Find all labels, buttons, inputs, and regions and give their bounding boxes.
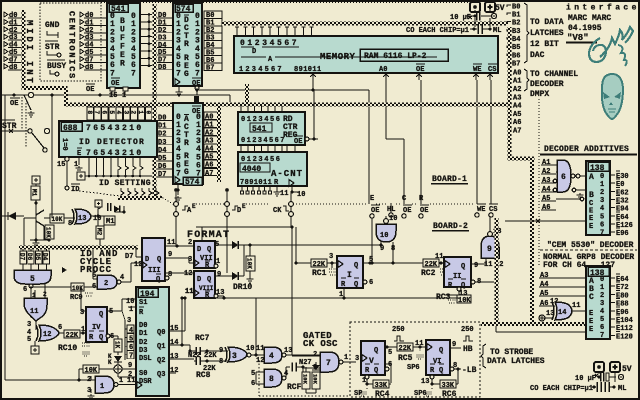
svg-text:R: R bbox=[184, 139, 189, 148]
wire FF III to FF VII clock bbox=[164, 257, 189, 259]
terminal +5V top right bbox=[470, 2, 480, 12]
svg-text:5: 5 bbox=[251, 370, 255, 378]
svg-text:7891011: 7891011 bbox=[240, 179, 272, 187]
svg-text:76543210: 76543210 bbox=[86, 124, 144, 133]
svg-text:FORMAT: FORMAT bbox=[187, 230, 230, 241]
svg-text:9: 9 bbox=[487, 245, 492, 254]
box CENTRONICS dotted outline bbox=[40, 3, 101, 81]
svg-text:I: I bbox=[347, 271, 352, 280]
chip U3 MEMORY RAM 6116 LP-2 bbox=[234, 36, 498, 73]
gate 12 XOR bbox=[39, 325, 59, 341]
svg-text:8: 8 bbox=[219, 358, 223, 366]
svg-text:7: 7 bbox=[195, 69, 200, 78]
svg-text:S0: S0 bbox=[139, 370, 147, 378]
svg-text:II: II bbox=[453, 273, 461, 281]
svg-text:3: 3 bbox=[355, 355, 359, 363]
gate 3 XOR bbox=[228, 347, 247, 362]
svg-text:1: 1 bbox=[137, 111, 144, 115]
svg-text:138: 138 bbox=[590, 164, 605, 173]
svg-text:6: 6 bbox=[23, 286, 27, 294]
svg-text:4040: 4040 bbox=[242, 165, 261, 174]
svg-text:11: 11 bbox=[30, 308, 38, 316]
svg-text:76543210: 76543210 bbox=[86, 149, 144, 158]
labels B0-B7 to data latches bbox=[507, 5, 511, 7]
svg-text:SP6: SP6 bbox=[407, 364, 420, 372]
svg-text:10: 10 bbox=[380, 232, 388, 240]
svg-text:10K: 10K bbox=[85, 367, 98, 375]
resistors RCF 10K 10K bbox=[302, 372, 310, 389]
svg-text:9: 9 bbox=[474, 262, 478, 270]
svg-text:10 µF: 10 µF bbox=[450, 14, 471, 22]
svg-text:A5: A5 bbox=[542, 195, 550, 203]
svg-text:11: 11 bbox=[127, 377, 135, 385]
chip U7 4040 A-CNT bbox=[238, 152, 307, 186]
svg-text:RC4: RC4 bbox=[375, 390, 390, 399]
wires caps to gate 3 bbox=[190, 350, 196, 352]
svg-text:RCF: RCF bbox=[287, 383, 302, 392]
svg-text:MIDI INT: MIDI INT bbox=[24, 20, 34, 86]
svg-text:Q: Q bbox=[354, 281, 358, 289]
svg-text:RC5: RC5 bbox=[398, 354, 413, 363]
svg-text:04.1995: 04.1995 bbox=[568, 24, 602, 33]
wire CS vertical bbox=[490, 80, 492, 204]
svg-text:5: 5 bbox=[600, 213, 604, 221]
svg-text:G: G bbox=[184, 70, 189, 79]
svg-text:11: 11 bbox=[572, 302, 580, 310]
svg-text:A7: A7 bbox=[513, 128, 521, 136]
svg-text:8: 8 bbox=[477, 278, 481, 286]
svg-text:A4: A4 bbox=[542, 186, 550, 194]
svg-text:D: D bbox=[197, 276, 201, 284]
flip-flop VIII bbox=[194, 271, 215, 298]
svg-text:6: 6 bbox=[388, 361, 392, 369]
svg-text:OE: OE bbox=[294, 138, 302, 146]
wire clock row to FF VII bbox=[196, 226, 291, 228]
svg-text:7: 7 bbox=[600, 332, 604, 340]
svg-text:5: 5 bbox=[600, 316, 604, 324]
svg-text:D7: D7 bbox=[158, 171, 166, 179]
svg-text:ID SETTING: ID SETTING bbox=[99, 179, 151, 188]
svg-text:Q: Q bbox=[99, 334, 103, 342]
bus enable row lower bbox=[481, 322, 585, 326]
pin 11 ground of U7 bbox=[276, 186, 278, 190]
svg-text:BOARD-1: BOARD-1 bbox=[432, 175, 467, 184]
svg-text:M1: M1 bbox=[31, 189, 38, 197]
flip-flop VII bbox=[194, 241, 215, 268]
svg-text:Q3: Q3 bbox=[157, 371, 165, 379]
svg-text:GND: GND bbox=[45, 21, 60, 30]
svg-text:D4: D4 bbox=[42, 253, 49, 261]
svg-text:TO DATA: TO DATA bbox=[530, 18, 564, 27]
wires Q0-Q3 of U8 bbox=[169, 330, 185, 332]
svg-text:7: 7 bbox=[176, 69, 181, 78]
svg-text:6: 6 bbox=[600, 324, 604, 332]
svg-text:6: 6 bbox=[561, 173, 566, 182]
chip U9 138 decoder upper bbox=[586, 161, 610, 235]
wire FF III Q2 to FF VIII bbox=[164, 272, 194, 274]
svg-text:7: 7 bbox=[326, 359, 331, 368]
gate 13 XOR bbox=[75, 209, 91, 224]
pin 10 clock of U7 bbox=[291, 186, 293, 192]
resistor array to bus bbox=[121, 188, 124, 198]
ground below U5 bbox=[177, 185, 179, 190]
svg-text:E120: E120 bbox=[616, 333, 633, 341]
svg-text:3: 3 bbox=[600, 300, 604, 308]
output labels E of U10 bbox=[610, 277, 615, 279]
svg-text:E: E bbox=[589, 223, 593, 231]
wire RAM pin stubs down bbox=[312, 73, 314, 80]
resistor 10K to adder bbox=[83, 365, 99, 373]
svg-text:13: 13 bbox=[421, 378, 429, 386]
svg-text:6: 6 bbox=[251, 380, 255, 388]
svg-text:E80: E80 bbox=[616, 292, 629, 300]
svg-text:D: D bbox=[197, 246, 201, 254]
svg-text:E64: E64 bbox=[616, 214, 629, 222]
svg-text:5: 5 bbox=[30, 275, 35, 284]
svg-text:2: 2 bbox=[600, 292, 604, 300]
svg-text:A5: A5 bbox=[540, 290, 548, 298]
wire format out bbox=[239, 244, 381, 246]
svg-text:E96: E96 bbox=[616, 309, 629, 317]
alien head icon bbox=[602, 74, 623, 119]
svg-text:3: 3 bbox=[122, 111, 129, 115]
svg-text:D0: D0 bbox=[139, 322, 147, 330]
wire dotted top ground link bbox=[101, 2, 469, 4]
svg-text:VI: VI bbox=[433, 358, 441, 366]
svg-text:13: 13 bbox=[170, 353, 178, 361]
bus D vertical bbox=[153, 4, 157, 198]
svg-text:11: 11 bbox=[167, 239, 175, 247]
bus MIDI to ID horizontal bbox=[22, 86, 68, 90]
svg-text:2: 2 bbox=[313, 351, 317, 359]
svg-text:15: 15 bbox=[109, 92, 117, 100]
svg-text:RC1: RC1 bbox=[312, 269, 327, 278]
svg-text:3: 3 bbox=[232, 352, 237, 361]
svg-text:CO EACH CHIP=µ1: CO EACH CHIP=µ1 bbox=[406, 27, 469, 35]
resistor 22K RC1 bbox=[296, 262, 311, 264]
wire OE run long bbox=[312, 80, 314, 90]
svg-text:688: 688 bbox=[63, 124, 78, 133]
svg-text:A1: A1 bbox=[542, 159, 550, 167]
svg-text:6: 6 bbox=[369, 279, 373, 287]
svg-text:6: 6 bbox=[58, 324, 62, 332]
adder circle plus bbox=[114, 365, 122, 373]
svg-text:1: 1 bbox=[81, 326, 85, 334]
svg-text:A3: A3 bbox=[542, 177, 550, 185]
svg-text:10K: 10K bbox=[52, 216, 63, 223]
svg-text:Q: Q bbox=[374, 367, 378, 375]
svg-text:541: 541 bbox=[252, 125, 267, 134]
resistor 22K RC5 bbox=[385, 346, 397, 348]
svg-text:-LB: -LB bbox=[462, 366, 477, 375]
svg-text:12: 12 bbox=[256, 357, 264, 365]
resistor 10K RC9 bbox=[29, 286, 71, 288]
svg-text:DR10: DR10 bbox=[233, 283, 252, 292]
svg-text:RC7: RC7 bbox=[195, 334, 210, 343]
svg-text:S1: S1 bbox=[139, 299, 147, 307]
wire ID setting common bbox=[84, 175, 152, 177]
svg-text:15: 15 bbox=[57, 161, 65, 169]
svg-text:10 µF: 10 µF bbox=[575, 375, 596, 383]
output labels E of U9 bbox=[610, 174, 615, 176]
svg-text:K: K bbox=[108, 359, 112, 366]
svg-text:1: 1 bbox=[344, 354, 348, 362]
svg-text:A3: A3 bbox=[513, 94, 521, 102]
svg-text:D: D bbox=[252, 48, 256, 56]
svg-text:1: 1 bbox=[600, 181, 604, 189]
svg-text:B7: B7 bbox=[512, 60, 520, 68]
bus A vertical bbox=[217, 105, 221, 182]
junction row A E bbox=[175, 190, 177, 246]
wires U1 outputs to D bus bbox=[140, 14, 152, 16]
svg-text:11: 11 bbox=[415, 340, 423, 348]
svg-text:194: 194 bbox=[140, 290, 155, 299]
wire bus to FF III D7 bbox=[135, 247, 137, 257]
bus ID AND CYCLE PROCC horizontal bbox=[19, 246, 138, 250]
ground below U2 bbox=[178, 86, 180, 90]
svg-text:22K: 22K bbox=[399, 345, 412, 353]
svg-text:22K: 22K bbox=[313, 261, 326, 269]
svg-text:12: 12 bbox=[43, 331, 51, 339]
svg-text:DECODER: DECODER bbox=[530, 80, 564, 89]
svg-text:E72: E72 bbox=[616, 284, 629, 292]
gate 5 AND down bbox=[14, 270, 51, 284]
svg-text:5V: 5V bbox=[495, 4, 505, 13]
svg-text:8: 8 bbox=[68, 220, 72, 228]
transistor Q1 bbox=[35, 203, 37, 212]
svg-text:8: 8 bbox=[269, 375, 274, 384]
bus main +5V top horizontal bbox=[222, 22, 508, 26]
svg-text:Q1: Q1 bbox=[157, 343, 165, 351]
svg-text:OE: OE bbox=[10, 100, 18, 108]
wires U4 outputs down bbox=[88, 157, 90, 163]
svg-text:10K: 10K bbox=[302, 374, 309, 385]
svg-text:12: 12 bbox=[170, 367, 178, 375]
svg-text:5: 5 bbox=[27, 336, 31, 344]
svg-text:N27: N27 bbox=[299, 359, 312, 367]
junction row WE CS bbox=[477, 203, 486, 205]
svg-text:A6: A6 bbox=[542, 204, 550, 212]
svg-text:4: 4 bbox=[120, 274, 124, 282]
svg-text:Q: Q bbox=[439, 347, 443, 355]
svg-text:4: 4 bbox=[600, 205, 604, 213]
svg-text:R: R bbox=[184, 40, 189, 49]
wire A0 vertical bbox=[385, 80, 387, 139]
flip-flop IV bbox=[86, 307, 107, 342]
svg-text:WE: WE bbox=[473, 66, 481, 74]
svg-text:ML: ML bbox=[618, 385, 626, 393]
svg-text:E0: E0 bbox=[616, 181, 624, 189]
svg-text:DATA LATCHES: DATA LATCHES bbox=[487, 357, 545, 366]
wire gate2 out to FF III bbox=[121, 281, 131, 283]
gate 9 NAND up bbox=[481, 236, 499, 258]
svg-text:D2: D2 bbox=[158, 131, 166, 139]
flip-flop III bbox=[142, 238, 165, 281]
svg-text:CS: CS bbox=[488, 66, 496, 74]
svg-text:7: 7 bbox=[131, 69, 136, 78]
svg-text:DAC: DAC bbox=[530, 51, 545, 60]
svg-text:11: 11 bbox=[256, 345, 264, 353]
svg-text:A1: A1 bbox=[513, 78, 521, 86]
svg-text:9: 9 bbox=[217, 271, 221, 279]
svg-text:22K: 22K bbox=[425, 261, 438, 269]
svg-text:N22: N22 bbox=[188, 352, 201, 360]
svg-text:E: E bbox=[589, 326, 593, 334]
label ID bbox=[71, 183, 80, 185]
svg-text:A0: A0 bbox=[513, 69, 521, 77]
svg-text:D8: D8 bbox=[158, 64, 166, 72]
svg-text:B3: B3 bbox=[512, 28, 520, 36]
svg-text:10K: 10K bbox=[72, 285, 83, 292]
svg-text:574: 574 bbox=[185, 178, 200, 187]
svg-text:R: R bbox=[120, 60, 125, 69]
svg-text:MARC MARC: MARC MARC bbox=[568, 14, 611, 23]
svg-text:1: 1 bbox=[129, 306, 133, 314]
svg-text:D4: D4 bbox=[158, 147, 166, 155]
wire FF VIII q to long line bbox=[218, 295, 224, 297]
gate 6 tall NAND bbox=[557, 160, 571, 192]
svg-text:A6: A6 bbox=[513, 119, 521, 127]
svg-text:D0: D0 bbox=[158, 115, 166, 123]
label M1 box bbox=[32, 176, 40, 184]
svg-text:A5: A5 bbox=[513, 111, 521, 119]
chip U10 138 decoder lower bbox=[586, 266, 610, 339]
resistor 33K RC6 bbox=[430, 375, 434, 379]
switch to ground bbox=[24, 95, 31, 110]
gate 11 funnel bbox=[30, 288, 32, 298]
diode input left edge bbox=[8, 212, 16, 220]
svg-text:ID DETECTOR: ID DETECTOR bbox=[79, 138, 145, 147]
labels A0-A7 boxed at U5 bbox=[204, 112, 219, 119]
svg-text:11: 11 bbox=[435, 253, 443, 261]
dotted vertical feed bbox=[538, 99, 540, 265]
svg-text:891011: 891011 bbox=[294, 66, 322, 74]
svg-text:5: 5 bbox=[108, 111, 115, 115]
svg-text:E62: E62 bbox=[616, 189, 629, 197]
svg-text:BUSY: BUSY bbox=[47, 62, 66, 71]
flip-flop V bbox=[361, 341, 385, 375]
svg-text:D3: D3 bbox=[139, 347, 147, 355]
svg-text:D: D bbox=[237, 207, 241, 215]
wire FF III Q to FF VII bbox=[164, 245, 194, 247]
svg-text:33K: 33K bbox=[375, 382, 388, 390]
svg-text:B7: B7 bbox=[206, 64, 214, 72]
svg-text:2: 2 bbox=[104, 280, 108, 288]
svg-text:7: 7 bbox=[600, 229, 604, 237]
svg-text:Q: Q bbox=[461, 263, 465, 271]
chip U5 574 A-CTR REG bbox=[194, 96, 199, 102]
wire FF I Q out bbox=[363, 262, 423, 264]
svg-text:5V: 5V bbox=[622, 365, 632, 374]
labels B0-B7 boxed bbox=[204, 11, 222, 18]
svg-text:22K: 22K bbox=[204, 352, 217, 360]
svg-text:A-CNT: A-CNT bbox=[271, 169, 303, 179]
svg-text:01234567: 01234567 bbox=[241, 137, 286, 145]
wire vertical CK long bbox=[291, 227, 293, 355]
svg-text:E96: E96 bbox=[616, 230, 629, 238]
wires bus taps to U6 bbox=[240, 106, 242, 112]
svg-text:Q: Q bbox=[374, 347, 378, 355]
svg-text:2: 2 bbox=[600, 189, 604, 197]
svg-text:2: 2 bbox=[130, 111, 137, 115]
svg-text:ML: ML bbox=[493, 27, 501, 35]
svg-text:5: 5 bbox=[109, 308, 113, 316]
svg-text:250: 250 bbox=[461, 326, 474, 334]
svg-text:DMPX: DMPX bbox=[530, 90, 549, 99]
pins below U7 bbox=[241, 186, 243, 191]
chip U8 194 shift register bbox=[136, 287, 169, 396]
svg-text:CO EACH CHIP=µ1: CO EACH CHIP=µ1 bbox=[530, 385, 593, 393]
svg-text:CK OSC: CK OSC bbox=[303, 339, 338, 349]
svg-text:D6: D6 bbox=[158, 163, 166, 171]
svg-text:E126: E126 bbox=[616, 222, 633, 230]
wire OE2 vertical bbox=[420, 80, 422, 204]
svg-text:A7: A7 bbox=[205, 170, 213, 178]
label STR with pin bbox=[45, 40, 58, 42]
flip-flop I bbox=[337, 256, 363, 288]
terminal plus gate12 bbox=[31, 346, 39, 354]
resistor 22K RC2 bbox=[423, 259, 439, 267]
svg-text:14: 14 bbox=[558, 309, 566, 317]
svg-text:1: 1 bbox=[600, 284, 604, 292]
dashed box gated clock bbox=[350, 322, 480, 397]
labels A0-A7 to channel decoder bbox=[508, 71, 512, 73]
terminal circle bottom bbox=[594, 362, 604, 372]
svg-text:d8: d8 bbox=[85, 64, 93, 72]
svg-text:A2: A2 bbox=[513, 86, 521, 94]
svg-text:DSL: DSL bbox=[139, 355, 152, 363]
svg-text:1: 1 bbox=[122, 92, 126, 100]
signature squiggle bbox=[589, 27, 633, 62]
svg-text:Q: Q bbox=[207, 276, 211, 284]
bus vertical right of RAM bbox=[508, 27, 512, 160]
svg-text:6: 6 bbox=[600, 221, 604, 229]
arrow tap on bus bbox=[62, 267, 67, 273]
svg-text:E: E bbox=[192, 203, 196, 210]
gate 14 XOR bbox=[555, 302, 572, 320]
svg-text:10: 10 bbox=[246, 345, 254, 353]
svg-text:A6: A6 bbox=[540, 300, 548, 308]
svg-text:B5: B5 bbox=[512, 44, 520, 52]
labels D7-D4 rotated boxed bbox=[20, 251, 26, 264]
ground below Q1 bbox=[35, 224, 37, 240]
svg-text:D: D bbox=[145, 256, 149, 264]
svg-text:11: 11 bbox=[280, 190, 288, 198]
bus stub vertical x245 bbox=[245, 84, 249, 104]
svg-text:SP: SP bbox=[354, 390, 362, 398]
svg-text:STR: STR bbox=[45, 43, 60, 52]
svg-text:E30: E30 bbox=[616, 173, 629, 181]
svg-text:E: E bbox=[589, 310, 593, 318]
wire E bottom U10 bbox=[495, 326, 497, 332]
svg-text:13: 13 bbox=[284, 347, 292, 355]
dash-dot box RCF bbox=[258, 360, 260, 396]
svg-text:8: 8 bbox=[86, 111, 93, 115]
svg-text:4: 4 bbox=[115, 111, 122, 115]
svg-text:OE: OE bbox=[86, 86, 94, 94]
svg-text:14: 14 bbox=[170, 339, 178, 347]
svg-text:13: 13 bbox=[546, 310, 554, 318]
connector MIDI IN pins d0-d8 bbox=[4, 12, 8, 17]
svg-text:7: 7 bbox=[110, 69, 115, 78]
svg-text:E88: E88 bbox=[616, 301, 629, 309]
svg-text:10K: 10K bbox=[246, 258, 253, 269]
svg-text:1K: 1K bbox=[114, 341, 121, 349]
svg-text:E64: E64 bbox=[616, 276, 629, 284]
svg-text:E: E bbox=[77, 150, 81, 158]
svg-text:D2: D2 bbox=[139, 339, 147, 347]
wire FF II Q to gate 9 bbox=[471, 263, 486, 265]
